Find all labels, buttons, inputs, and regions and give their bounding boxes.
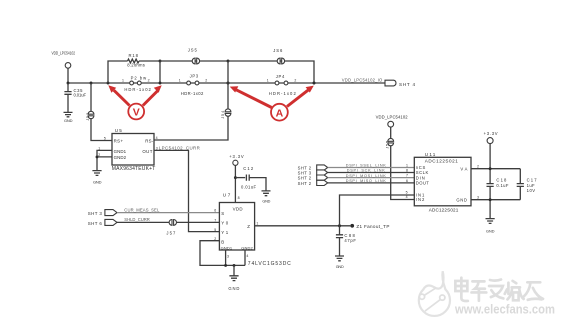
- svg-text:2: 2: [148, 79, 150, 83]
- svg-text:S: S: [221, 211, 224, 216]
- svg-text:4: 4: [406, 195, 408, 199]
- svg-text:GND: GND: [336, 265, 344, 269]
- wire stub down to rail: [159, 61, 161, 83]
- svg-text:GND2: GND2: [241, 245, 253, 250]
- svg-text:+3.3V: +3.3V: [229, 154, 244, 159]
- off-page connector SHT 6: [88, 219, 117, 226]
- connector P2 HDR-1x02: [122, 75, 152, 92]
- svg-text:DSPI_MISO_LINK: DSPI_MISO_LINK: [346, 179, 386, 183]
- jumper J57: [166, 220, 176, 236]
- svg-text:6: 6: [214, 209, 216, 213]
- svg-text:JP4: JP4: [276, 74, 285, 79]
- svg-text:0.1uF: 0.1uF: [496, 183, 508, 188]
- svg-text:C12: C12: [243, 166, 254, 171]
- svg-text:5: 5: [104, 137, 106, 141]
- watermark chinese glyphs 电子发烧友 (drawn): [455, 278, 543, 301]
- svg-text:GND: GND: [64, 118, 73, 123]
- svg-text:SHT 3: SHT 3: [88, 211, 103, 216]
- svg-text:DSPI_SSEL_LINK: DSPI_SSEL_LINK: [346, 164, 386, 168]
- jumper J54 (vertical): [221, 109, 231, 119]
- node GND1/GND2: [96, 155, 99, 158]
- wire DSPI_SCK_LINK: [328, 172, 415, 174]
- ground right of C12: [262, 191, 271, 204]
- svg-text:SHT 4: SHT 4: [399, 82, 415, 87]
- svg-text:C88: C88: [344, 233, 355, 238]
- svg-text:8: 8: [238, 196, 240, 200]
- svg-text:SHT 2: SHT 2: [298, 176, 312, 181]
- wire R18 to JS5 node: [139, 60, 160, 62]
- svg-text:ADC122S021: ADC122S021: [425, 158, 458, 163]
- svg-text:GND: GND: [228, 286, 239, 291]
- svg-text:2: 2: [205, 79, 207, 83]
- wire power port to rail: [67, 68, 69, 83]
- svg-text:J52: J52: [86, 113, 90, 121]
- power +3.3V (right): [484, 131, 498, 143]
- svg-text:DSPI_SCK_LINK: DSPI_SCK_LINK: [347, 169, 385, 173]
- jumper J52: [86, 111, 94, 121]
- wire R18 left stub: [108, 61, 128, 83]
- svg-text:VA: VA: [460, 166, 467, 171]
- svg-text:JS6: JS6: [273, 48, 283, 53]
- svg-text:ADC122S021: ADC122S021: [429, 207, 459, 212]
- analog switch U7 74LVC1G53: [214, 193, 291, 268]
- svg-text:CUR_MEAS_SEL: CUR_MEAS_SEL: [124, 207, 160, 212]
- svg-text:U5: U5: [115, 128, 122, 133]
- power +3.3V (U7): [229, 154, 244, 165]
- wire main rail VDD: [68, 82, 385, 84]
- svg-text:U7: U7: [223, 193, 231, 198]
- svg-text:MAX9634TEUK+T: MAX9634TEUK+T: [112, 166, 156, 172]
- svg-text:Z1 Fanout_TP: Z1 Fanout_TP: [356, 224, 389, 229]
- connector JP3 HDR-1x02: [179, 74, 207, 97]
- wire DSPI_MOSI_LINK: [328, 177, 415, 179]
- ground below U5: [92, 171, 101, 185]
- svg-text:2: 2: [294, 79, 296, 83]
- svg-text:J54: J54: [221, 111, 225, 119]
- svg-text:Z: Z: [247, 224, 250, 229]
- ground below C88: [335, 256, 344, 269]
- svg-text:DSPI_MOSI_LINK: DSPI_MOSI_LINK: [346, 174, 386, 178]
- svg-text:0.01uF: 0.01uF: [241, 184, 256, 189]
- wire CUR_MEAS_SEL: [117, 212, 219, 214]
- node JS5/JS6/J54: [227, 60, 230, 63]
- node rail/J54: [226, 81, 229, 84]
- svg-text:3: 3: [227, 255, 229, 259]
- svg-text:HDR-1x02: HDR-1x02: [124, 87, 151, 92]
- svg-text:8: 8: [406, 169, 408, 173]
- svg-text:1: 1: [406, 164, 408, 168]
- jumper JS6: [273, 48, 284, 64]
- svg-text:A: A: [276, 108, 284, 120]
- svg-text:1: 1: [256, 222, 258, 226]
- svg-text:VDD_LPC54102: VDD_LPC54102: [376, 115, 409, 120]
- svg-text:SHT 6: SHT 6: [88, 221, 103, 226]
- capacitor C88: [336, 226, 356, 256]
- svg-text:B: B: [221, 239, 224, 244]
- node VA junction: [489, 167, 492, 170]
- capacitor C12: [235, 166, 266, 191]
- wire J57 to U7 Y0: [176, 221, 219, 223]
- svg-text:+3.3V: +3.3V: [484, 131, 498, 136]
- wire U7 Z output: [255, 225, 351, 227]
- svg-text:HDR-1x02: HDR-1x02: [181, 91, 204, 96]
- svg-text:GND: GND: [262, 199, 270, 203]
- svg-text:GND: GND: [93, 180, 102, 185]
- watermark logo pads and trace: [424, 288, 440, 311]
- svg-text:1: 1: [267, 79, 269, 83]
- wire +3.3V drop / C18 branch: [489, 144, 491, 182]
- svg-text:HDR-1x02: HDR-1x02: [269, 91, 297, 96]
- svg-text:GND1: GND1: [114, 149, 127, 154]
- wire SHLD_CURR left: [117, 221, 170, 223]
- wire VA rail: [471, 168, 520, 170]
- svg-text:J55: J55: [385, 141, 389, 149]
- svg-text:www.elecfans.com: www.elecfans.com: [454, 303, 555, 317]
- svg-text:0.01uF: 0.01uF: [74, 93, 87, 98]
- node rail/J52 junction: [90, 82, 93, 85]
- test point Z1 Fanout_TP: [350, 224, 389, 229]
- svg-text:47pF: 47pF: [344, 238, 356, 243]
- wire RS- to J54 up to JS line: [154, 61, 228, 140]
- watermark logo circle: [419, 289, 450, 316]
- svg-text:OUT: OUT: [142, 149, 152, 154]
- svg-text:GND: GND: [456, 197, 467, 202]
- node rail/C35 junction: [67, 82, 70, 85]
- svg-text:4: 4: [156, 136, 158, 140]
- svg-text:SHLD_CURR: SHLD_CURR: [124, 217, 150, 222]
- wire U5 OUT to U7 Y1: [154, 150, 219, 231]
- svg-text:JP3: JP3: [190, 74, 199, 79]
- svg-text:3: 3: [477, 195, 479, 199]
- svg-text:4: 4: [246, 254, 248, 258]
- svg-text:GND1: GND1: [221, 245, 233, 250]
- wire J55 to IN2: [391, 145, 415, 199]
- power port VDD_LPC54102 (right): [376, 115, 409, 128]
- svg-text:VDD_LPC54102: VDD_LPC54102: [52, 51, 76, 56]
- wire DSPI_SSEL_LINK: [328, 167, 415, 169]
- svg-text:GND: GND: [486, 229, 495, 233]
- svg-text:GND2: GND2: [114, 155, 127, 160]
- jumper J55: [385, 138, 393, 148]
- svg-text:C18: C18: [496, 177, 507, 182]
- svg-text:P2 bw: P2 bw: [131, 75, 147, 80]
- svg-text:DOUT: DOUT: [416, 181, 429, 186]
- svg-text:6: 6: [406, 179, 408, 183]
- off-page connectors SHT (DSPI): [298, 165, 328, 186]
- capacitor C35: [64, 83, 86, 112]
- jumper JS5: [188, 48, 200, 64]
- svg-text:8.2ohms: 8.2ohms: [127, 63, 145, 68]
- svg-text:5: 5: [406, 191, 408, 195]
- svg-text:RS+: RS+: [114, 139, 124, 144]
- svg-text:C17: C17: [527, 177, 538, 182]
- ground below U7: [228, 276, 239, 291]
- svg-text:Y0: Y0: [221, 221, 229, 226]
- wire gnd stub: [233, 265, 235, 275]
- svg-text:Y1: Y1: [221, 230, 229, 235]
- svg-text:1: 1: [179, 79, 181, 83]
- wire U7 B gnd loop: [200, 241, 245, 266]
- node gnd tap: [233, 264, 236, 267]
- wire J52 to U5 RS+: [91, 118, 112, 140]
- wire +3.3V to U7 VDD: [234, 165, 236, 202]
- power port VDD_LPC54102 (top-left): [52, 51, 76, 69]
- op-amp U5 MAX9634: [98, 128, 158, 172]
- ground below C18: [486, 219, 495, 234]
- node rail/JP4 right: [312, 81, 315, 84]
- off-page connector SHT 4: [385, 80, 415, 87]
- svg-text:DIN: DIN: [416, 175, 425, 180]
- wire IN1 riser: [340, 195, 415, 226]
- svg-text:IN2: IN2: [416, 197, 425, 202]
- svg-text:V: V: [133, 107, 140, 119]
- node C12 tap: [234, 176, 237, 179]
- svg-text:74LVC1G53DC: 74LVC1G53DC: [248, 261, 291, 267]
- voltmeter V annotation: [108, 85, 161, 119]
- capacitor C17: [517, 169, 538, 200]
- ammeter A annotation: [230, 86, 314, 121]
- off-page connector SHT 3: [88, 210, 117, 216]
- node Z/IN1/C88: [338, 224, 341, 227]
- wire JS6 line: [228, 61, 314, 83]
- node rail/stub: [159, 82, 162, 85]
- wire power to J55: [390, 127, 392, 139]
- connector JP4 HDR-1x02: [267, 74, 297, 96]
- svg-text:10V: 10V: [527, 188, 536, 193]
- svg-text:VDD_LPC54102_IO: VDD_LPC54102_IO: [342, 77, 383, 82]
- wire GND rail: [471, 199, 520, 201]
- svg-text:J57: J57: [166, 231, 176, 236]
- capacitor C18: [487, 177, 509, 218]
- ADC U11 ADC122S021: [406, 152, 479, 212]
- wire U5 GND1/GND2 tie: [97, 150, 112, 170]
- wire JS5 line: [160, 60, 228, 62]
- node R18/JS5/stub: [159, 60, 162, 63]
- svg-text:1: 1: [122, 79, 124, 83]
- svg-text:U11: U11: [425, 152, 436, 157]
- wire DSPI_MISO_LINK: [328, 182, 415, 184]
- wire J52 branch upper: [90, 83, 92, 112]
- node rail/R18 left stub: [107, 82, 110, 85]
- svg-text:VDD: VDD: [233, 207, 243, 212]
- svg-text:JS5: JS5: [188, 48, 198, 53]
- svg-text:RS-: RS-: [145, 139, 154, 144]
- resistor R18: [127, 53, 145, 68]
- svg-text:7: 7: [214, 218, 216, 222]
- svg-text:2: 2: [477, 164, 479, 168]
- svg-text:R18: R18: [129, 53, 139, 58]
- ground below C35: [64, 112, 73, 123]
- node GND junction: [489, 198, 492, 201]
- watermark logo tail: [423, 271, 445, 289]
- node pin3/gnd: [224, 264, 227, 267]
- svg-text:5: 5: [214, 228, 216, 232]
- svg-text:7: 7: [406, 174, 408, 178]
- svg-text:SHT 2: SHT 2: [298, 181, 312, 186]
